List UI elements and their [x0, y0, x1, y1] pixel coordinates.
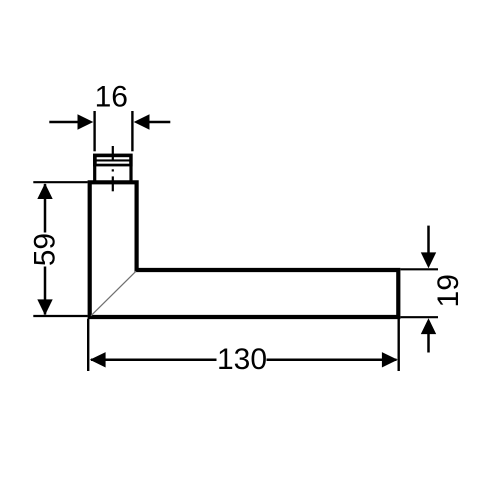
spindle thread block	[93, 154, 133, 167]
dim59 extension line bottom	[33, 315, 87, 317]
dim19 extension line bottom	[401, 316, 439, 318]
handle outline (L lever profile)	[90, 182, 399, 317]
svg-text:19: 19	[432, 274, 465, 307]
svg-text:130: 130	[217, 343, 267, 376]
dim16 right leader line	[148, 121, 170, 124]
centerline dot	[112, 169, 114, 171]
dim59 bottom arrowhead	[37, 299, 52, 315]
dim19 upper leader line	[427, 226, 430, 254]
dim130 right arrowhead	[382, 352, 398, 367]
dim59 line lower segment	[44, 267, 47, 315]
dim19 lower arrowhead	[421, 318, 436, 334]
dim130 extension line right	[398, 319, 400, 371]
thread slit lower	[97, 162, 130, 164]
centerline dash top	[112, 146, 114, 160]
dim16 left arrowhead	[78, 114, 94, 129]
svg-text:16: 16	[95, 80, 128, 113]
dim130 line left segment	[91, 359, 217, 362]
dim59 top arrowhead	[37, 183, 52, 199]
dim59 extension line top	[33, 181, 87, 183]
dim19 extension line top	[401, 268, 439, 270]
spindle neck rect	[95, 155, 131, 182]
dim19 lower leader line	[427, 333, 430, 353]
dim130 left arrowhead	[90, 352, 106, 367]
dim16 right arrowhead	[134, 114, 150, 129]
dim16 left leader line	[49, 121, 79, 124]
dim16 extension line left	[93, 111, 95, 151]
thread slit upper	[97, 157, 130, 159]
dim130 line right segment	[267, 359, 397, 362]
svg-text:59: 59	[29, 233, 62, 266]
dim59 line upper segment	[44, 184, 47, 233]
dim19 upper arrowhead	[421, 252, 436, 268]
dim16 extension line right	[131, 111, 133, 151]
centerline dash bottom	[112, 176, 114, 191]
corner diagonal	[91, 271, 136, 316]
dim130 extension line left	[87, 319, 89, 371]
